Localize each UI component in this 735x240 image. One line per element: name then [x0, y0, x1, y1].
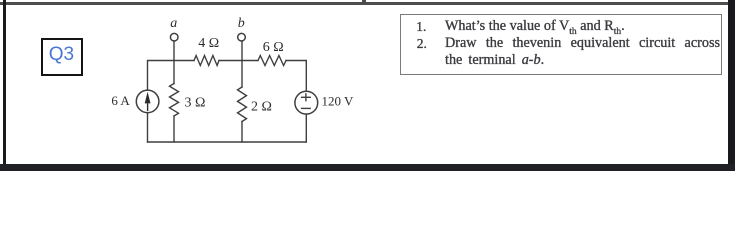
wire: right branch below 120V source [305, 114, 307, 142]
current source I1 circle [136, 90, 159, 113]
voltage source plus sign [302, 94, 311, 101]
resistor 2-ohm (vertical zigzag) [238, 87, 247, 122]
Q3 label box [41, 38, 82, 76]
svg-text:6 A: 6 A [111, 93, 130, 108]
item number 2 [417, 35, 427, 52]
current source I1 arrow [145, 92, 151, 111]
Q3 label text [49, 45, 74, 64]
svg-text:a: a [170, 16, 177, 31]
wire: below 3-ohm resistor to bottom rail [173, 116, 175, 142]
svg-text:2 Ω: 2 Ω [251, 100, 272, 115]
item number 1 [416, 18, 426, 35]
node b terminal circle [238, 33, 246, 41]
right dark bar [728, 0, 735, 171]
node a terminal circle [170, 33, 178, 41]
question text box [400, 14, 722, 75]
wire: top rail from left branch to 4-ohm resistor [148, 61, 195, 91]
bottom dark bar [0, 164, 735, 172]
resistor 4-ohm (horizontal zigzag) [194, 56, 219, 66]
svg-text:120 V: 120 V [322, 94, 355, 109]
wire: node-a stub down through top rail to 3-ohm resistor [173, 41, 175, 84]
question 2 text [445, 35, 720, 69]
wire: top rail between 4-ohm and 6-ohm resistors [219, 60, 258, 62]
wire: bottom rail [148, 141, 307, 143]
wire: node-b stub down through top rail to 2-ohm resistor [241, 41, 243, 87]
column divider tick above top line [362, 0, 367, 2]
svg-text:4 Ω: 4 Ω [198, 36, 219, 51]
question 1 text [445, 18, 722, 41]
circuit schematic svg [0, 0, 735, 173]
wire: below 2-ohm resistor to bottom rail [241, 122, 243, 143]
svg-text:6 Ω: 6 Ω [263, 40, 284, 55]
voltage source V1 circle [295, 91, 318, 114]
resistor 6-ohm (horizontal zigzag) [258, 56, 286, 66]
left table border [3, 0, 6, 164]
resistor 3-ohm (vertical zigzag) [170, 84, 179, 117]
voltage source minus sign [302, 107, 311, 109]
wire: top rail from 6-ohm resistor to right branch, down to 120V source [286, 61, 306, 92]
wire: left branch below current source [147, 113, 149, 142]
svg-text:3 Ω: 3 Ω [185, 96, 206, 111]
svg-text:b: b [238, 16, 245, 31]
top table border line [0, 2, 735, 5]
